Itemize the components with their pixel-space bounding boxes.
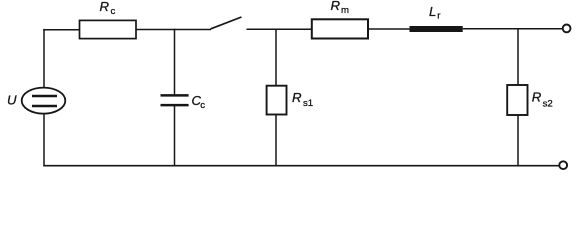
svg-text:s1: s1 [303, 98, 313, 109]
svg-text:c: c [111, 6, 116, 17]
wire Cc branch lower (capacitor to bottom rail) [174, 106, 176, 167]
svg-text:m: m [341, 5, 349, 16]
wire from Lr to top-right terminal [463, 28, 563, 30]
svg-text:U: U [7, 92, 17, 107]
wire left branch upper (node to source) [43, 29, 45, 88]
wire Rs2 branch lower (Rs2 to bottom rail) [517, 115, 519, 166]
wire Rs2 branch upper (top rail to Rs2) [517, 28, 519, 85]
wire Rs1 branch lower (Rs1 to bottom rail) [275, 115, 277, 167]
voltage source U [22, 88, 66, 114]
svg-text:s2: s2 [543, 99, 553, 110]
svg-text:R: R [532, 90, 542, 105]
resistor Rc [80, 20, 137, 38]
label Rc [100, 0, 116, 17]
wire from Rm to Lr [368, 28, 410, 30]
wire bottom rail [43, 165, 559, 167]
wire left branch lower (source to bottom rail) [43, 114, 45, 167]
label Rm [331, 0, 350, 16]
terminal bottom-right (open circle) [559, 161, 567, 169]
svg-text:R: R [100, 0, 110, 14]
wire from Rc to switch hinge [136, 29, 211, 31]
switch blade (open) [211, 17, 242, 29]
svg-text:R: R [331, 0, 341, 13]
resistor Rs1 [267, 86, 287, 115]
wire Rs1 branch upper (top rail to Rs1) [275, 29, 277, 86]
wire Cc branch upper (top rail to capacitor) [174, 29, 176, 95]
terminal top-right (open circle) [563, 25, 571, 33]
label Rs1 [292, 90, 313, 109]
wire from switch fixed contact to Rm [247, 28, 312, 30]
inductor Lr (solid bar) [410, 26, 463, 32]
svg-text:R: R [292, 90, 302, 105]
label Cc [192, 93, 206, 111]
wire top-left horizontal from source branch to Rc [43, 29, 79, 31]
label Lr [429, 4, 441, 21]
capacitor Cc [161, 95, 189, 105]
resistor Rm [312, 19, 368, 38]
resistor Rs2 [507, 85, 527, 115]
svg-text:c: c [200, 100, 205, 111]
label Rs2 [532, 90, 553, 110]
svg-text:L: L [429, 4, 436, 19]
